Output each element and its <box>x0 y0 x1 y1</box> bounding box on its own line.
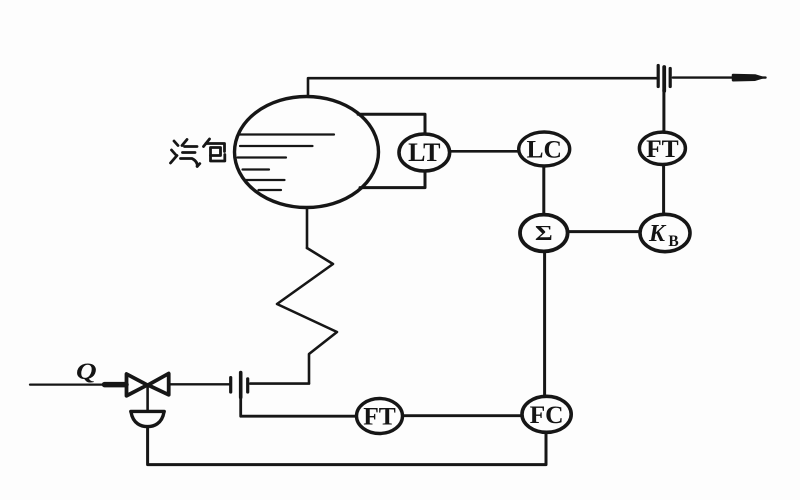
orifice plate FE steam line <box>658 66 670 92</box>
wire LT to LC <box>450 150 519 153</box>
wire feedwater inlet <box>30 384 105 386</box>
svg-text:LC: LC <box>526 135 561 164</box>
tap wire drum upper to LT <box>358 114 425 133</box>
bold pipe segment before valve <box>105 382 127 388</box>
arrow steam flow <box>733 75 762 80</box>
transmitter LT <box>399 134 450 171</box>
svg-text:B: B <box>668 233 678 250</box>
drum vessel <box>235 97 379 208</box>
orifice plate FE feedwater <box>231 373 248 398</box>
wire LC to summer <box>542 166 545 214</box>
wire valve to orifice <box>169 383 229 385</box>
wire drum bottom to coil <box>306 207 309 248</box>
svg-text:Σ: Σ <box>535 222 553 245</box>
wire steam line from drum top <box>308 78 656 96</box>
tap wire orifice to FT <box>662 90 665 132</box>
valve stem <box>146 386 149 411</box>
feedback wire FC to valve actuator <box>148 427 546 465</box>
summer sigma <box>520 215 568 252</box>
wire steam line to arrow <box>673 76 766 78</box>
wire FT to KB <box>662 165 665 214</box>
transmitter FT (steam) <box>639 132 685 164</box>
wire FT to FC <box>403 414 522 417</box>
tap wire orifice to FT feedwater <box>241 397 357 416</box>
actuator diaphragm <box>131 411 164 426</box>
water level lines <box>238 135 335 191</box>
controller LC <box>519 132 570 166</box>
svg-text:LT: LT <box>408 138 440 167</box>
controller FC <box>522 396 571 432</box>
transmitter FT (feedwater) <box>357 399 403 434</box>
label qibao drum (drawn hanzi) <box>171 139 225 166</box>
svg-text:FT: FT <box>363 402 396 431</box>
gain block KB <box>640 214 690 251</box>
wire summer to FC <box>543 252 546 397</box>
wire KB to summer <box>568 230 640 233</box>
svg-text:K: K <box>648 221 667 247</box>
control valve body <box>127 374 169 396</box>
svg-text:FT: FT <box>646 134 679 163</box>
coil riser zigzag <box>277 248 337 383</box>
wire orifice to coil bottom <box>250 382 309 385</box>
tap wire drum lower to LT <box>360 171 425 187</box>
svg-text:Q: Q <box>76 358 97 384</box>
svg-text:FC: FC <box>530 400 564 429</box>
